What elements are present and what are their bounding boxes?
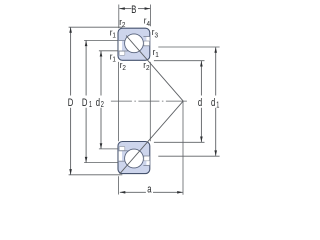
extension line d bottom — [154, 141, 205, 143]
extension line a left — [118, 176, 120, 194]
extension line d2 bottom — [99, 148, 118, 150]
extension line D top — [69, 26, 123, 28]
svg-text:d: d — [96, 97, 100, 110]
cage section right — [144, 41, 150, 46]
svg-text:d: d — [198, 97, 202, 110]
dimension line D — [70, 27, 72, 95]
inner ring shoulder line right — [142, 45, 150, 47]
bearing section (top) + mirrored copy (bottom) — [118, 28, 150, 60]
extension line D1 top — [84, 39, 118, 41]
ring gap right (front face) — [146, 37, 149, 46]
bearing section (bottom, mirrored) — [118, 142, 150, 174]
svg-text:2: 2 — [101, 101, 104, 109]
svg-text:B: B — [131, 4, 136, 17]
dimension line D1 — [85, 41, 87, 96]
bearing rings cross-section (rounded block) — [118, 28, 150, 60]
dimension B extension right — [150, 5, 152, 27]
face projection line left — [118, 62, 120, 141]
svg-text:d: d — [211, 97, 215, 110]
extension line d top — [154, 60, 205, 62]
contact line bottom — [120, 101, 184, 174]
dimension line d1 — [215, 47, 217, 95]
inner ring shoulder line left — [118, 50, 128, 52]
ball — [125, 34, 144, 53]
svg-text:D: D — [68, 97, 74, 110]
extension line d1 bottom — [158, 155, 219, 157]
dimension line a — [120, 191, 146, 193]
ring gap left (back face) — [119, 41, 123, 51]
cage section left — [119, 51, 125, 55]
svg-text:1: 1 — [89, 101, 92, 109]
extension line D1 bottom — [84, 162, 118, 164]
outer ring shoulder line left — [118, 40, 126, 42]
extension line D bottom — [69, 174, 123, 176]
dimension line d — [200, 61, 202, 96]
axis line (dash-dot) — [111, 100, 188, 102]
svg-text:a: a — [147, 183, 152, 196]
extension line d2 top — [99, 50, 118, 52]
contact line top — [126, 36, 183, 102]
svg-text:D: D — [82, 97, 88, 110]
dimension line B — [119, 8, 131, 10]
dimension line d2 — [100, 51, 102, 96]
dimension B extension left — [118, 5, 120, 29]
extension line a right (apex drop) — [182, 101, 184, 195]
outer ring shoulder line right — [143, 35, 149, 37]
svg-text:1: 1 — [216, 102, 219, 110]
extension line d1 top — [158, 46, 219, 48]
face projection line right — [149, 62, 151, 141]
